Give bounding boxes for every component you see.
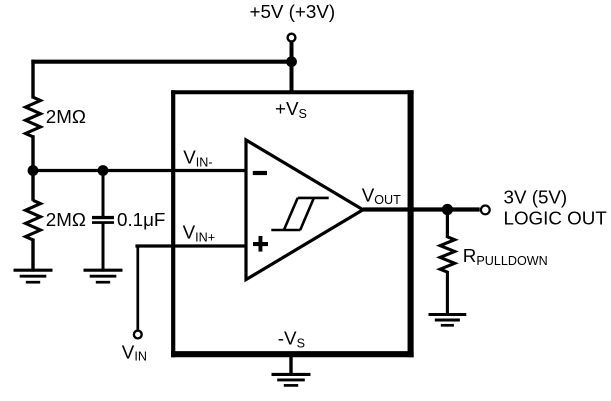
op-amp non-inverting input marker (plus) — [253, 236, 268, 252]
wire R2 top lead — [31, 169, 34, 201]
junction +5V node — [286, 56, 297, 67]
wire output node down to R_PULLDOWN — [446, 208, 449, 238]
wire R1 bottom lead to node A — [31, 135, 34, 172]
wire R2 bottom lead to ground — [31, 239, 34, 272]
svg-text:2MΩ: 2MΩ — [46, 106, 86, 127]
wire C1 top lead — [102, 169, 105, 217]
wire V_IN vertical drop — [136, 245, 139, 330]
svg-text:0.1μF: 0.1μF — [117, 209, 165, 230]
terminal LOGIC OUT open circle — [481, 206, 490, 215]
svg-text:RPULLDOWN: RPULLDOWN — [463, 245, 548, 268]
ground GND2 under C1 — [84, 270, 123, 282]
wire R_PULLDOWN bottom lead to ground — [446, 271, 449, 315]
svg-text:LOGIC OUT: LOGIC OUT — [504, 208, 608, 229]
comparator box U1 — [171, 90, 414, 357]
wire node A to inverting input — [32, 169, 248, 172]
op-amp inverting input marker (minus) — [253, 171, 267, 175]
ground GND4 below box — [272, 374, 311, 385]
junction node at C1 top — [98, 165, 109, 176]
ground GND1 under R2 — [14, 270, 53, 282]
resistor R_PULLDOWN zigzag — [440, 237, 455, 272]
terminal +5V open circle — [288, 34, 296, 42]
wire left rail upper segment — [31, 60, 34, 99]
wire -VS ground stub below box — [289, 355, 292, 375]
hysteresis symbol inside op-amp — [271, 198, 328, 230]
junction node A divider mid — [28, 165, 39, 176]
svg-text:-VS: -VS — [278, 327, 305, 350]
svg-text:VIN-: VIN- — [183, 146, 212, 169]
resistor R1 2MOhm zigzag — [26, 97, 41, 137]
svg-text:3V (5V): 3V (5V) — [504, 187, 568, 208]
svg-text:VIN: VIN — [122, 341, 147, 363]
resistor R2 2MOhm zigzag — [26, 200, 41, 240]
op-amp U1 triangle — [246, 140, 363, 280]
terminal V_IN open circle — [134, 331, 142, 339]
svg-text:+VS: +VS — [275, 98, 307, 121]
svg-text:+5V (+3V): +5V (+3V) — [250, 1, 336, 22]
wire V_OUT from op-amp to terminal — [363, 207, 480, 211]
wire V_IN+ input horizontal — [135, 244, 247, 247]
svg-text:2MΩ: 2MΩ — [46, 209, 86, 230]
wire top rail from left rail to supply node — [31, 60, 291, 64]
junction output node — [442, 204, 453, 215]
wire supply drop into box (+VS) — [290, 42, 294, 94]
capacitor C1 plates — [92, 216, 114, 224]
ground GND3 under R_PULLDOWN — [429, 315, 467, 326]
svg-text:VOUT: VOUT — [362, 185, 401, 207]
svg-text:VIN+: VIN+ — [183, 222, 215, 245]
wire C1 bottom lead to ground — [102, 223, 105, 272]
